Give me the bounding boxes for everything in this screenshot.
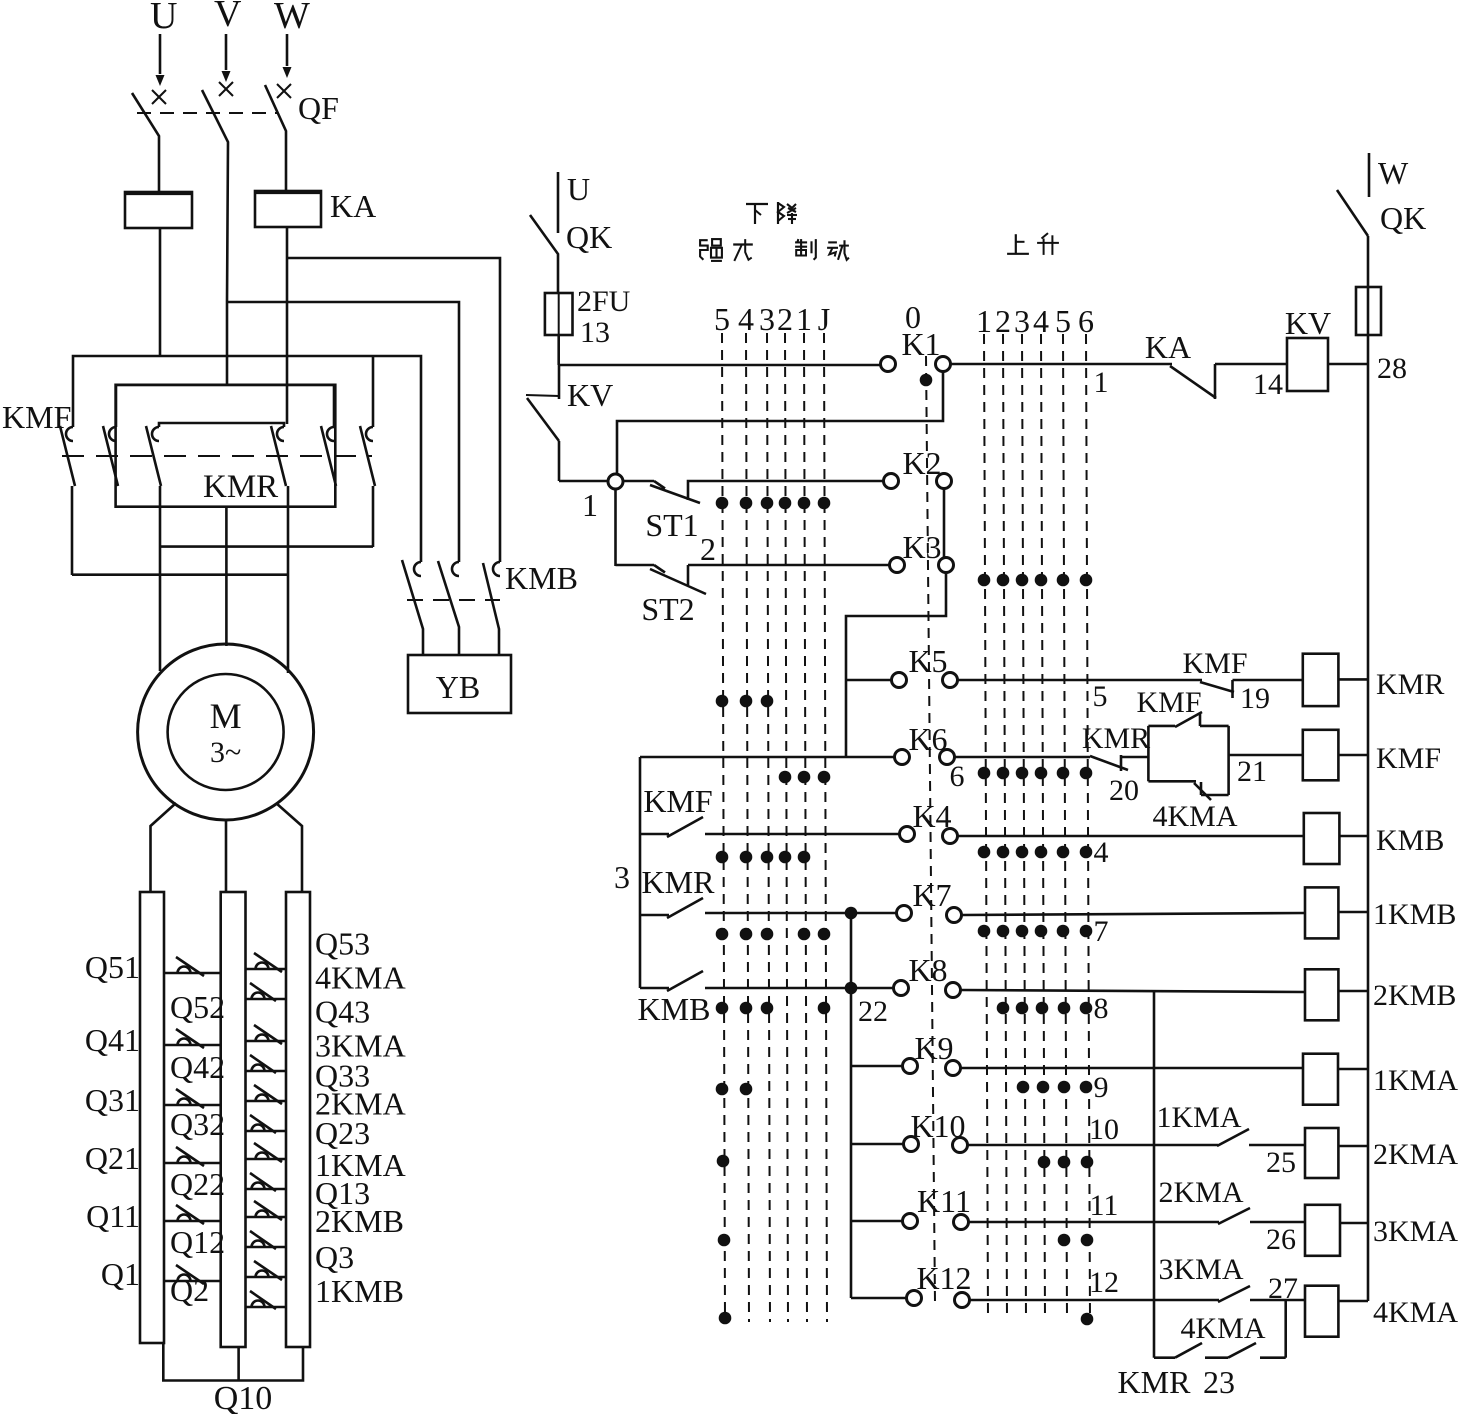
- junction dots row K5: [716, 695, 729, 708]
- svg-text:19: 19: [1240, 682, 1270, 715]
- drum column 4 dashed: [746, 333, 749, 1322]
- contact K11 right: [954, 1215, 969, 1230]
- svg-text:2KMA: 2KMA: [1373, 1138, 1458, 1171]
- drum column 0 dashed: [926, 356, 935, 1303]
- wire rail A: [160, 545, 373, 548]
- resistor bar R3: [286, 892, 310, 1347]
- wire row K1 left: [559, 364, 880, 367]
- svg-text:KMR: KMR: [1118, 1364, 1192, 1400]
- wire U phase to rail: [159, 228, 162, 355]
- switch Q12 lower: [246, 1246, 287, 1249]
- wire KV to row1: [558, 441, 561, 481]
- svg-text:K7: K7: [912, 877, 951, 913]
- wire mid vertical 22: [850, 913, 853, 1298]
- wire motor exit mid: [225, 820, 228, 893]
- svg-text:4KMA: 4KMA: [1180, 1312, 1265, 1345]
- drum column J dashed: [824, 333, 827, 1322]
- wire rail B: [72, 573, 288, 576]
- contact K6 right: [940, 750, 955, 765]
- svg-text:9: 9: [1094, 1071, 1109, 1104]
- wire K2R to K3R: [943, 488, 946, 557]
- resistor bar R2: [221, 892, 246, 1347]
- svg-text:Q12: Q12: [170, 1224, 225, 1260]
- wire V incoming: [225, 34, 228, 70]
- wire KMF coil to bus: [1338, 754, 1368, 757]
- svg-text:KMB: KMB: [1376, 824, 1444, 857]
- svg-text:W: W: [274, 0, 310, 37]
- switch Q32 lower: [246, 1130, 287, 1133]
- contact K4 left: [900, 827, 915, 842]
- contact K9 right: [946, 1061, 961, 1076]
- wire row K4 right: [958, 835, 1304, 838]
- svg-text:4: 4: [1033, 303, 1049, 339]
- switch KMR on K7: [640, 914, 669, 917]
- wire row K12 left: [851, 1297, 906, 1300]
- svg-text:KMF: KMF: [1376, 742, 1441, 775]
- node 1 circle: [608, 474, 623, 489]
- svg-text:4KMA: 4KMA: [315, 960, 406, 996]
- svg-text:3: 3: [1014, 303, 1030, 339]
- switch Q51: [164, 972, 221, 975]
- wire node1 down: [614, 489, 617, 566]
- svg-text:KA: KA: [330, 188, 376, 224]
- switch 3KMA on K12: [1218, 1286, 1250, 1302]
- svg-text:KMF: KMF: [1182, 647, 1247, 680]
- switch Q2 upper: [246, 1276, 287, 1279]
- wire cross rail: [159, 423, 284, 427]
- coil KMB: [1304, 813, 1340, 864]
- motor M outer circle: [138, 644, 314, 820]
- switch Q52 lower: [246, 998, 287, 1001]
- svg-text:KMF: KMF: [1136, 686, 1201, 719]
- breaker QF pole 3: [277, 84, 291, 98]
- contact K7 left: [897, 906, 912, 921]
- svg-text:Q22: Q22: [170, 1166, 225, 1202]
- motor M inner circle: [168, 674, 284, 790]
- svg-text:6: 6: [1078, 303, 1094, 339]
- svg-text:5: 5: [1093, 680, 1108, 713]
- svg-text:4: 4: [738, 301, 754, 337]
- contact K4 right: [943, 829, 958, 844]
- wire U incoming: [159, 34, 162, 74]
- contact K2 right: [937, 474, 952, 489]
- contactor KMB contact 1: [402, 560, 423, 655]
- junction dots row K8: [716, 1002, 729, 1015]
- contact K12 left: [907, 1291, 922, 1306]
- svg-text:Q1: Q1: [101, 1256, 140, 1292]
- drum column 2 dashed: [785, 333, 788, 1322]
- breaker QF pole 1: [152, 90, 166, 104]
- switch KMF on K5: [1200, 682, 1234, 692]
- switch Q12 upper: [246, 1216, 287, 1219]
- contactor main contact 6: [366, 427, 373, 441]
- switch 4KMA bottom branch: [1148, 780, 1196, 783]
- wire row K11 right: [969, 1221, 1219, 1224]
- drum column 1 dashed: [804, 333, 807, 1322]
- wire W tap to KMB3: [287, 258, 500, 562]
- svg-text:1KMA: 1KMA: [1156, 1101, 1241, 1134]
- svg-text:Q11: Q11: [86, 1198, 140, 1234]
- wire row K7 right: [962, 913, 1305, 915]
- wire row K6 right: [955, 756, 1090, 759]
- fuse 2FU: [545, 293, 573, 335]
- contact K2 left: [884, 474, 899, 489]
- switch Q32 upper: [246, 1100, 287, 1103]
- wire 1KMB coil to bus: [1338, 911, 1368, 914]
- svg-text:28: 28: [1377, 352, 1407, 385]
- svg-text:2: 2: [777, 301, 793, 337]
- wire V tap to KMB2: [227, 302, 459, 562]
- svg-text:4: 4: [1094, 836, 1109, 869]
- svg-text:KMB: KMB: [505, 560, 578, 596]
- drum column up 2 dashed: [1003, 334, 1007, 1320]
- svg-text:3: 3: [759, 301, 775, 337]
- junction dots row K3: [978, 574, 991, 587]
- junction dots row K6: [779, 771, 792, 784]
- contactor KMB contact 2: [438, 561, 459, 655]
- wire row K12 right: [970, 1299, 1219, 1302]
- svg-text:Q21: Q21: [85, 1140, 140, 1176]
- switch QK right: [1337, 190, 1368, 236]
- wire vertical 1286: [1284, 1300, 1287, 1358]
- svg-text:K8: K8: [908, 952, 947, 988]
- svg-text:Q10: Q10: [214, 1380, 273, 1414]
- drum column up 3 dashed: [1022, 334, 1026, 1320]
- wire inner rail: [116, 385, 334, 427]
- svg-text:YB: YB: [436, 669, 480, 705]
- wire 2KMB coil to bus: [1338, 990, 1368, 993]
- junction dots row K2: [716, 497, 729, 510]
- switch Q1: [164, 1280, 221, 1283]
- svg-text:14: 14: [1253, 368, 1283, 401]
- junction dots row K4: [716, 851, 729, 864]
- contactor main contact 1: [66, 427, 73, 441]
- svg-text:K5: K5: [908, 643, 947, 679]
- switch KMF top branch: [1148, 725, 1175, 728]
- contactor KMB contact 3: [483, 563, 499, 655]
- header zhidong (brake): [795, 241, 807, 243]
- switch KV contact: [526, 395, 559, 396]
- contact K10 left: [904, 1137, 919, 1152]
- svg-text:4KMA: 4KMA: [1152, 800, 1237, 833]
- svg-text:U: U: [567, 171, 590, 207]
- contactor KMB linkage: [407, 599, 500, 601]
- wire 2KMA coil to bus: [1338, 1145, 1368, 1148]
- junction dots row K9: [716, 1083, 729, 1096]
- wire 3KMA coil to bus: [1340, 1222, 1368, 1225]
- resistor bar R1: [140, 892, 164, 1343]
- svg-text:KMR: KMR: [1082, 722, 1150, 755]
- svg-text:13: 13: [580, 316, 610, 349]
- svg-text:7: 7: [1094, 915, 1109, 948]
- contact K3 left: [890, 558, 905, 573]
- wire row K2 left: [559, 480, 608, 483]
- relay KV box: [1287, 338, 1328, 391]
- svg-text:3KMA: 3KMA: [1373, 1215, 1458, 1248]
- svg-text:3~: 3~: [210, 736, 241, 769]
- switch KA contact: [1170, 366, 1216, 398]
- brake YB box: [408, 655, 511, 713]
- svg-text:Q53: Q53: [315, 926, 370, 962]
- wire bank bottom legs: [163, 1343, 303, 1381]
- svg-text:1KMB: 1KMB: [315, 1273, 404, 1309]
- switch Q11: [164, 1220, 221, 1223]
- wire block to KMF coil: [1229, 754, 1303, 757]
- svg-text:2KMB: 2KMB: [1373, 979, 1456, 1012]
- contactor KMR box: [116, 385, 336, 507]
- wire KA to KV: [1215, 363, 1287, 366]
- svg-text:K9: K9: [914, 1030, 953, 1066]
- wire row K10 left: [851, 1143, 903, 1146]
- header qiangli (strong): [700, 240, 708, 260]
- contact K11 left: [903, 1214, 918, 1229]
- svg-text:10: 10: [1089, 1113, 1119, 1146]
- switch KMB on K8: [640, 987, 669, 990]
- contact K1 right: [936, 357, 951, 372]
- junction dot K7: [845, 907, 858, 920]
- svg-text:1: 1: [1094, 366, 1109, 399]
- wire KMB lead 3 hook: [493, 562, 500, 576]
- relay KA box 2: [255, 191, 321, 227]
- svg-text:ST2: ST2: [641, 591, 694, 627]
- switch Q52 upper: [246, 968, 287, 971]
- wire right bus: [1367, 236, 1370, 1301]
- wire contact6 down: [372, 486, 375, 547]
- svg-text:26: 26: [1266, 1223, 1296, 1256]
- drum column up 4 dashed: [1041, 334, 1045, 1320]
- wire fuse to node13: [557, 334, 560, 365]
- contact K5 right: [943, 673, 958, 688]
- junction dot node0: [920, 374, 933, 387]
- svg-text:ST1: ST1: [645, 507, 698, 543]
- wire W stub: [1368, 153, 1371, 197]
- svg-text:Q31: Q31: [85, 1082, 140, 1118]
- breaker QF linkage: [137, 112, 278, 114]
- wire KMR coil to bus: [1338, 678, 1368, 681]
- switch Q2 lower: [246, 1306, 287, 1309]
- switch Q42 upper: [246, 1040, 287, 1043]
- svg-text:Q2: Q2: [170, 1272, 209, 1308]
- header xiajiang (descend): [746, 203, 768, 205]
- svg-text:2KMA: 2KMA: [1158, 1176, 1243, 1209]
- switch ST1: [654, 481, 665, 489]
- switch Q22 lower: [246, 1188, 287, 1191]
- svg-text:KA: KA: [1145, 329, 1191, 365]
- coil 4KMA: [1305, 1286, 1338, 1337]
- coil 1KMA: [1303, 1054, 1338, 1105]
- switch Q42 lower: [246, 1070, 287, 1073]
- contactor linkage: [62, 455, 372, 457]
- contact K12 right: [955, 1293, 970, 1308]
- relay KA box 1: [125, 192, 192, 228]
- wire W phase below KA: [286, 227, 289, 424]
- contactor main contact 3: [152, 427, 159, 441]
- junction dots row K12: [719, 1312, 732, 1325]
- switch KMR bottom: [1175, 1343, 1202, 1358]
- wire K1 to node1 jog: [617, 371, 943, 474]
- svg-text:U: U: [150, 0, 177, 37]
- wire outer rail: [73, 356, 421, 562]
- coil KMF: [1303, 730, 1339, 781]
- svg-text:8: 8: [1094, 992, 1109, 1025]
- wire contact1 down: [71, 486, 74, 575]
- contactor main contact 2: [109, 427, 116, 441]
- wire W incoming: [286, 34, 289, 66]
- wire row K11 left: [851, 1220, 902, 1223]
- svg-text:Q42: Q42: [170, 1049, 225, 1085]
- wire KMB lead 1 hook: [414, 562, 421, 576]
- svg-text:4KMA: 4KMA: [1373, 1296, 1458, 1329]
- contact K1 left: [881, 357, 896, 372]
- svg-text:3: 3: [614, 859, 630, 895]
- svg-text:Q52: Q52: [170, 989, 225, 1025]
- svg-text:3KMA: 3KMA: [1158, 1253, 1243, 1286]
- wire node13 down: [558, 365, 561, 399]
- contact K7 right: [947, 908, 962, 923]
- wire KV to bus: [1328, 363, 1368, 366]
- switch Q22 upper: [246, 1158, 287, 1161]
- svg-text:Q41: Q41: [85, 1022, 140, 1058]
- contact K3 right: [939, 558, 954, 573]
- svg-text:W: W: [1378, 155, 1409, 191]
- fuse 1FU right: [1356, 287, 1381, 335]
- wire rail to contact6: [372, 356, 375, 427]
- wire 4KMA coil to bus: [1338, 1300, 1368, 1303]
- svg-text:QK: QK: [566, 219, 612, 255]
- wire KMB lead 2 hook: [452, 562, 459, 576]
- contact K8 left: [894, 981, 909, 996]
- wire bottom rail left: [1154, 1356, 1175, 1359]
- switch Q21: [164, 1162, 221, 1165]
- svg-text:Q43: Q43: [315, 994, 370, 1030]
- contact K6 left: [895, 750, 910, 765]
- wire row K5 right: [958, 679, 1202, 682]
- header shangsheng (ascend): [1015, 234, 1017, 254]
- svg-text:K12: K12: [916, 1260, 971, 1296]
- wire row K5 left: [846, 679, 891, 682]
- svg-text:J: J: [818, 301, 830, 337]
- svg-text:1: 1: [582, 487, 598, 523]
- drum column 3 dashed: [767, 333, 770, 1322]
- wire parallel block left: [1147, 726, 1150, 781]
- svg-text:2FU: 2FU: [577, 285, 631, 318]
- switch 2KMA on K11: [1218, 1208, 1250, 1224]
- svg-text:Q32: Q32: [170, 1106, 225, 1142]
- switch KMR on K6: [1090, 756, 1128, 770]
- svg-text:5: 5: [1055, 303, 1071, 339]
- wire contact4 motor lead W: [287, 486, 290, 673]
- junction dot K8: [845, 982, 858, 995]
- svg-text:1: 1: [796, 301, 812, 337]
- svg-text:Q51: Q51: [85, 949, 140, 985]
- wire V phase to inner rail: [226, 302, 229, 385]
- switch 1KMA on K10: [1217, 1129, 1249, 1146]
- coil 2KMB: [1305, 969, 1338, 1020]
- wire motor exit left: [151, 803, 177, 893]
- wire motor exit right: [276, 803, 302, 893]
- wire K3R jog to rail: [846, 572, 946, 757]
- junction dots row K11: [718, 1234, 731, 1247]
- switch 4KMA bottom: [1228, 1343, 1256, 1358]
- svg-text:22: 22: [858, 995, 888, 1028]
- wire contact3 motor lead U: [159, 486, 162, 671]
- svg-text:2: 2: [700, 531, 716, 567]
- svg-text:KMR: KMR: [1376, 668, 1444, 701]
- svg-text:1: 1: [976, 303, 992, 339]
- svg-text:KMR: KMR: [642, 864, 716, 900]
- svg-text:KV: KV: [567, 377, 613, 413]
- svg-text:KMB: KMB: [638, 991, 711, 1027]
- wire motor lead V: [225, 507, 228, 646]
- wire row K10 right: [968, 1144, 1218, 1147]
- wire U control stub: [557, 172, 560, 233]
- drum column up 6 dashed: [1086, 334, 1090, 1320]
- switch Q31: [164, 1104, 221, 1107]
- svg-text:25: 25: [1266, 1146, 1296, 1179]
- breaker QF pole 2: [219, 82, 233, 96]
- wire row K9 left: [851, 1065, 902, 1068]
- svg-text:V: V: [214, 0, 242, 35]
- svg-text:Q3: Q3: [315, 1239, 354, 1275]
- contactor main contact 4: [277, 427, 284, 441]
- contactor main contact 5: [327, 427, 334, 441]
- svg-text:27: 27: [1268, 1272, 1298, 1305]
- svg-text:2: 2: [995, 303, 1011, 339]
- drum column up 5 dashed: [1063, 334, 1067, 1320]
- switch QK left: [530, 215, 558, 293]
- switch ST2: [654, 565, 665, 573]
- coil 1KMB: [1305, 887, 1338, 938]
- svg-text:KMR: KMR: [203, 469, 278, 505]
- coil 3KMA: [1305, 1205, 1340, 1256]
- wire row K3 left: [616, 564, 655, 567]
- junction dots row K7: [716, 928, 729, 941]
- svg-text:5: 5: [714, 301, 730, 337]
- contact K10 right: [953, 1138, 968, 1153]
- wire parallel block right: [1227, 726, 1230, 795]
- wire row K8 right: [961, 990, 1305, 992]
- svg-text:2KMB: 2KMB: [315, 1203, 404, 1239]
- wire KMB coil to bus: [1339, 835, 1368, 838]
- wire 1KMA coil to bus: [1338, 1068, 1368, 1071]
- svg-text:QF: QF: [298, 90, 339, 126]
- svg-text:K2: K2: [902, 445, 941, 481]
- wire row K6 left: [640, 756, 894, 759]
- junction dots row K10: [717, 1155, 730, 1168]
- drum column 5 dashed: [722, 333, 725, 1322]
- svg-text:KMF: KMF: [643, 783, 712, 819]
- contact K9 left: [903, 1059, 918, 1074]
- left rail node3: [639, 757, 642, 988]
- svg-text:21: 21: [1237, 755, 1267, 788]
- wire row K1 right: [951, 363, 1172, 366]
- svg-text:K1: K1: [901, 326, 940, 362]
- wire row K9 right: [961, 1067, 1303, 1070]
- contact K8 right: [946, 983, 961, 998]
- contact K5 left: [892, 673, 907, 688]
- switch KMF on K4: [640, 833, 669, 836]
- wire vertical 1154: [1153, 990, 1156, 1358]
- svg-text:KV: KV: [1285, 305, 1331, 341]
- coil KMR: [1303, 654, 1339, 706]
- svg-text:11: 11: [1090, 1189, 1119, 1222]
- svg-text:K3: K3: [902, 529, 941, 565]
- coil 2KMA: [1305, 1128, 1338, 1178]
- svg-text:M: M: [210, 696, 242, 736]
- svg-text:23: 23: [1203, 1364, 1235, 1400]
- svg-text:1KMA: 1KMA: [1373, 1064, 1458, 1097]
- svg-text:20: 20: [1109, 774, 1139, 807]
